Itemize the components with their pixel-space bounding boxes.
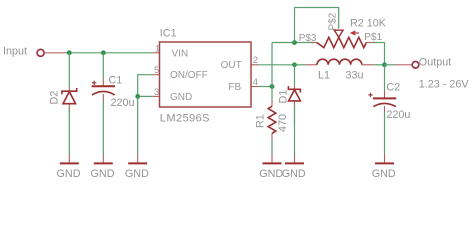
IC U1 LM2596S box [160, 42, 252, 107]
ground symbol under IC [125, 154, 149, 180]
wire D2 top [68, 53, 70, 87]
svg-text:FB: FB [228, 82, 241, 93]
potentiometer R2 zigzag [317, 37, 367, 47]
ground symbol under D2 [57, 154, 81, 180]
wire vout to output pin [385, 64, 396, 66]
pin lead L1 left [306, 64, 317, 66]
pin 2 stub [251, 64, 259, 66]
wire L1 to vout junction [373, 64, 384, 66]
pin 4 stub [251, 86, 259, 88]
svg-text:P$3: P$3 [299, 33, 317, 44]
svg-text:1.23 - 26V: 1.23 - 26V [419, 79, 470, 91]
svg-text:33u: 33u [346, 70, 364, 82]
wire switch node down to D1 [294, 65, 296, 86]
wire gnd column down [137, 96, 139, 154]
ground symbol under R1 [259, 154, 283, 180]
pin lead C2 - [384, 106, 386, 112]
svg-text:LM2596S: LM2596S [160, 113, 210, 125]
junction vout [382, 62, 387, 67]
svg-text:4: 4 [253, 77, 258, 88]
resistor R1 zigzag [268, 106, 276, 133]
svg-text:GND: GND [170, 92, 192, 103]
svg-text:D2: D2 [49, 91, 61, 105]
svg-text:Output: Output [419, 56, 451, 68]
wire R1 to gnd [271, 141, 273, 154]
op IC1 pin 1 stub [152, 52, 159, 54]
wire ON/OFF to gnd column [138, 75, 153, 97]
wire FB to junction [259, 86, 273, 88]
junction pot row / wiper loop [292, 40, 297, 45]
svg-text:3: 3 [154, 87, 159, 98]
inductor L1 [317, 59, 362, 65]
diode D1 zener symbol [288, 86, 300, 101]
connector J_OUT output pin circle [412, 62, 419, 69]
svg-text:IC1: IC1 [160, 28, 177, 40]
svg-text:GND: GND [282, 168, 306, 180]
trimmer adjust arrow [350, 30, 359, 35]
wire pot row from FB column [272, 42, 314, 44]
svg-text:Input: Input [3, 45, 27, 57]
wire D2 bottom to gnd [68, 109, 70, 155]
pin lead D1 top [294, 85, 296, 89]
wire C1 bottom to gnd [102, 102, 104, 154]
svg-text:C2: C2 [386, 82, 400, 94]
wire C1 top [102, 53, 104, 79]
svg-text:GND: GND [125, 168, 149, 180]
svg-text:P$2: P$2 [328, 12, 339, 30]
pin lead of input connector [44, 52, 66, 54]
junction input/C1 [101, 50, 106, 55]
potentiometer R2 right lead P$1 [366, 42, 373, 44]
svg-text:GND: GND [91, 168, 115, 180]
svg-text:GND: GND [372, 168, 396, 180]
pin lead R1 top [271, 99, 273, 106]
svg-text:2: 2 [253, 55, 258, 66]
pin lead D1 bottom [294, 101, 296, 122]
pin 5 stub [152, 74, 159, 76]
svg-text:P$1: P$1 [364, 32, 382, 43]
ground symbol under C2 [372, 154, 396, 180]
svg-text:R1: R1 [255, 114, 267, 128]
wire switch node to L1 [295, 64, 306, 66]
potentiometer R2 left lead P$3 [311, 42, 317, 44]
pin lead C1 + [102, 79, 104, 87]
wire C2 to gnd [384, 113, 386, 155]
junction FB/R1/pot [270, 84, 275, 89]
junction switch node [292, 62, 297, 67]
wire input row to VIN [66, 52, 152, 54]
diode D2 zener symbol [62, 88, 77, 104]
svg-text:GND: GND [57, 168, 81, 180]
ground symbol under D1 [282, 154, 306, 180]
wire wiper loop [295, 8, 339, 43]
wire pot right to vout column [373, 43, 385, 65]
svg-text:VIN: VIN [172, 48, 189, 59]
svg-text:L1: L1 [318, 70, 330, 82]
svg-text:OUT: OUT [221, 60, 242, 71]
pin lead C1 - [102, 94, 104, 102]
svg-text:220u: 220u [386, 109, 410, 121]
svg-text:GND: GND [259, 168, 283, 180]
svg-text:220u: 220u [111, 97, 135, 109]
pin lead C2 + [384, 90, 386, 98]
pin lead D2 anode/cathode stubs [68, 87, 70, 92]
pin 3 stub [152, 95, 159, 97]
junction pin3/pin5 column [135, 94, 140, 99]
svg-text:470: 470 [277, 114, 289, 132]
junction input/D2 [67, 50, 72, 55]
potentiometer R2 wiper arrow P$2 [334, 30, 343, 37]
wire FB junction down to R1 [271, 87, 273, 100]
svg-text:ON/OFF: ON/OFF [170, 70, 208, 81]
connector J_IN input pin circle [37, 49, 44, 56]
wire FB junction up to pot row [271, 43, 273, 87]
wire vout down to C2 [384, 65, 386, 91]
svg-text:D1: D1 [277, 90, 289, 104]
pin lead L1 right [362, 64, 374, 66]
ground symbol under C1 [91, 154, 115, 180]
svg-text:R2 10K: R2 10K [350, 18, 387, 30]
pin lead R1 bottom [271, 133, 273, 147]
pin lead of output connector [395, 64, 412, 66]
wire D1 to gnd [294, 106, 296, 154]
wire GND pin to gnd column [138, 95, 153, 97]
svg-text:5: 5 [154, 65, 159, 76]
svg-text:C1: C1 [109, 74, 123, 86]
wire OUT pin to switch node [259, 64, 295, 66]
capacitor C2 polarized symbol [368, 93, 396, 107]
capacitor C1 polarized symbol [92, 81, 115, 95]
